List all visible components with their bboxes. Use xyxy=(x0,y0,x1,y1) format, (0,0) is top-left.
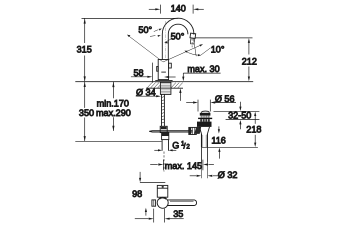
svg-text:min.170: min.170 xyxy=(97,98,129,108)
svg-text:max. 145: max. 145 xyxy=(165,161,202,171)
svg-text:116: 116 xyxy=(211,135,226,145)
svg-text:98: 98 xyxy=(132,189,142,199)
svg-text:35: 35 xyxy=(173,209,183,219)
svg-text:32-50: 32-50 xyxy=(228,111,251,121)
svg-text:Ø 34: Ø 34 xyxy=(136,87,156,97)
svg-text:max. 30: max. 30 xyxy=(187,64,219,74)
svg-text:50°: 50° xyxy=(171,31,185,41)
svg-text:G: G xyxy=(172,141,179,151)
svg-text:2: 2 xyxy=(186,144,190,151)
svg-text:350: 350 xyxy=(79,108,94,118)
svg-text:58: 58 xyxy=(133,68,143,78)
svg-text:212: 212 xyxy=(242,57,257,67)
svg-text:218: 218 xyxy=(246,125,261,135)
svg-text:315: 315 xyxy=(77,45,92,55)
svg-text:10°: 10° xyxy=(211,45,225,55)
svg-text:Ø 56: Ø 56 xyxy=(215,94,235,104)
svg-text:50°: 50° xyxy=(138,25,152,35)
svg-text:max.290: max.290 xyxy=(96,108,131,118)
svg-text:Ø 32: Ø 32 xyxy=(218,170,238,180)
svg-text:140: 140 xyxy=(171,3,186,13)
